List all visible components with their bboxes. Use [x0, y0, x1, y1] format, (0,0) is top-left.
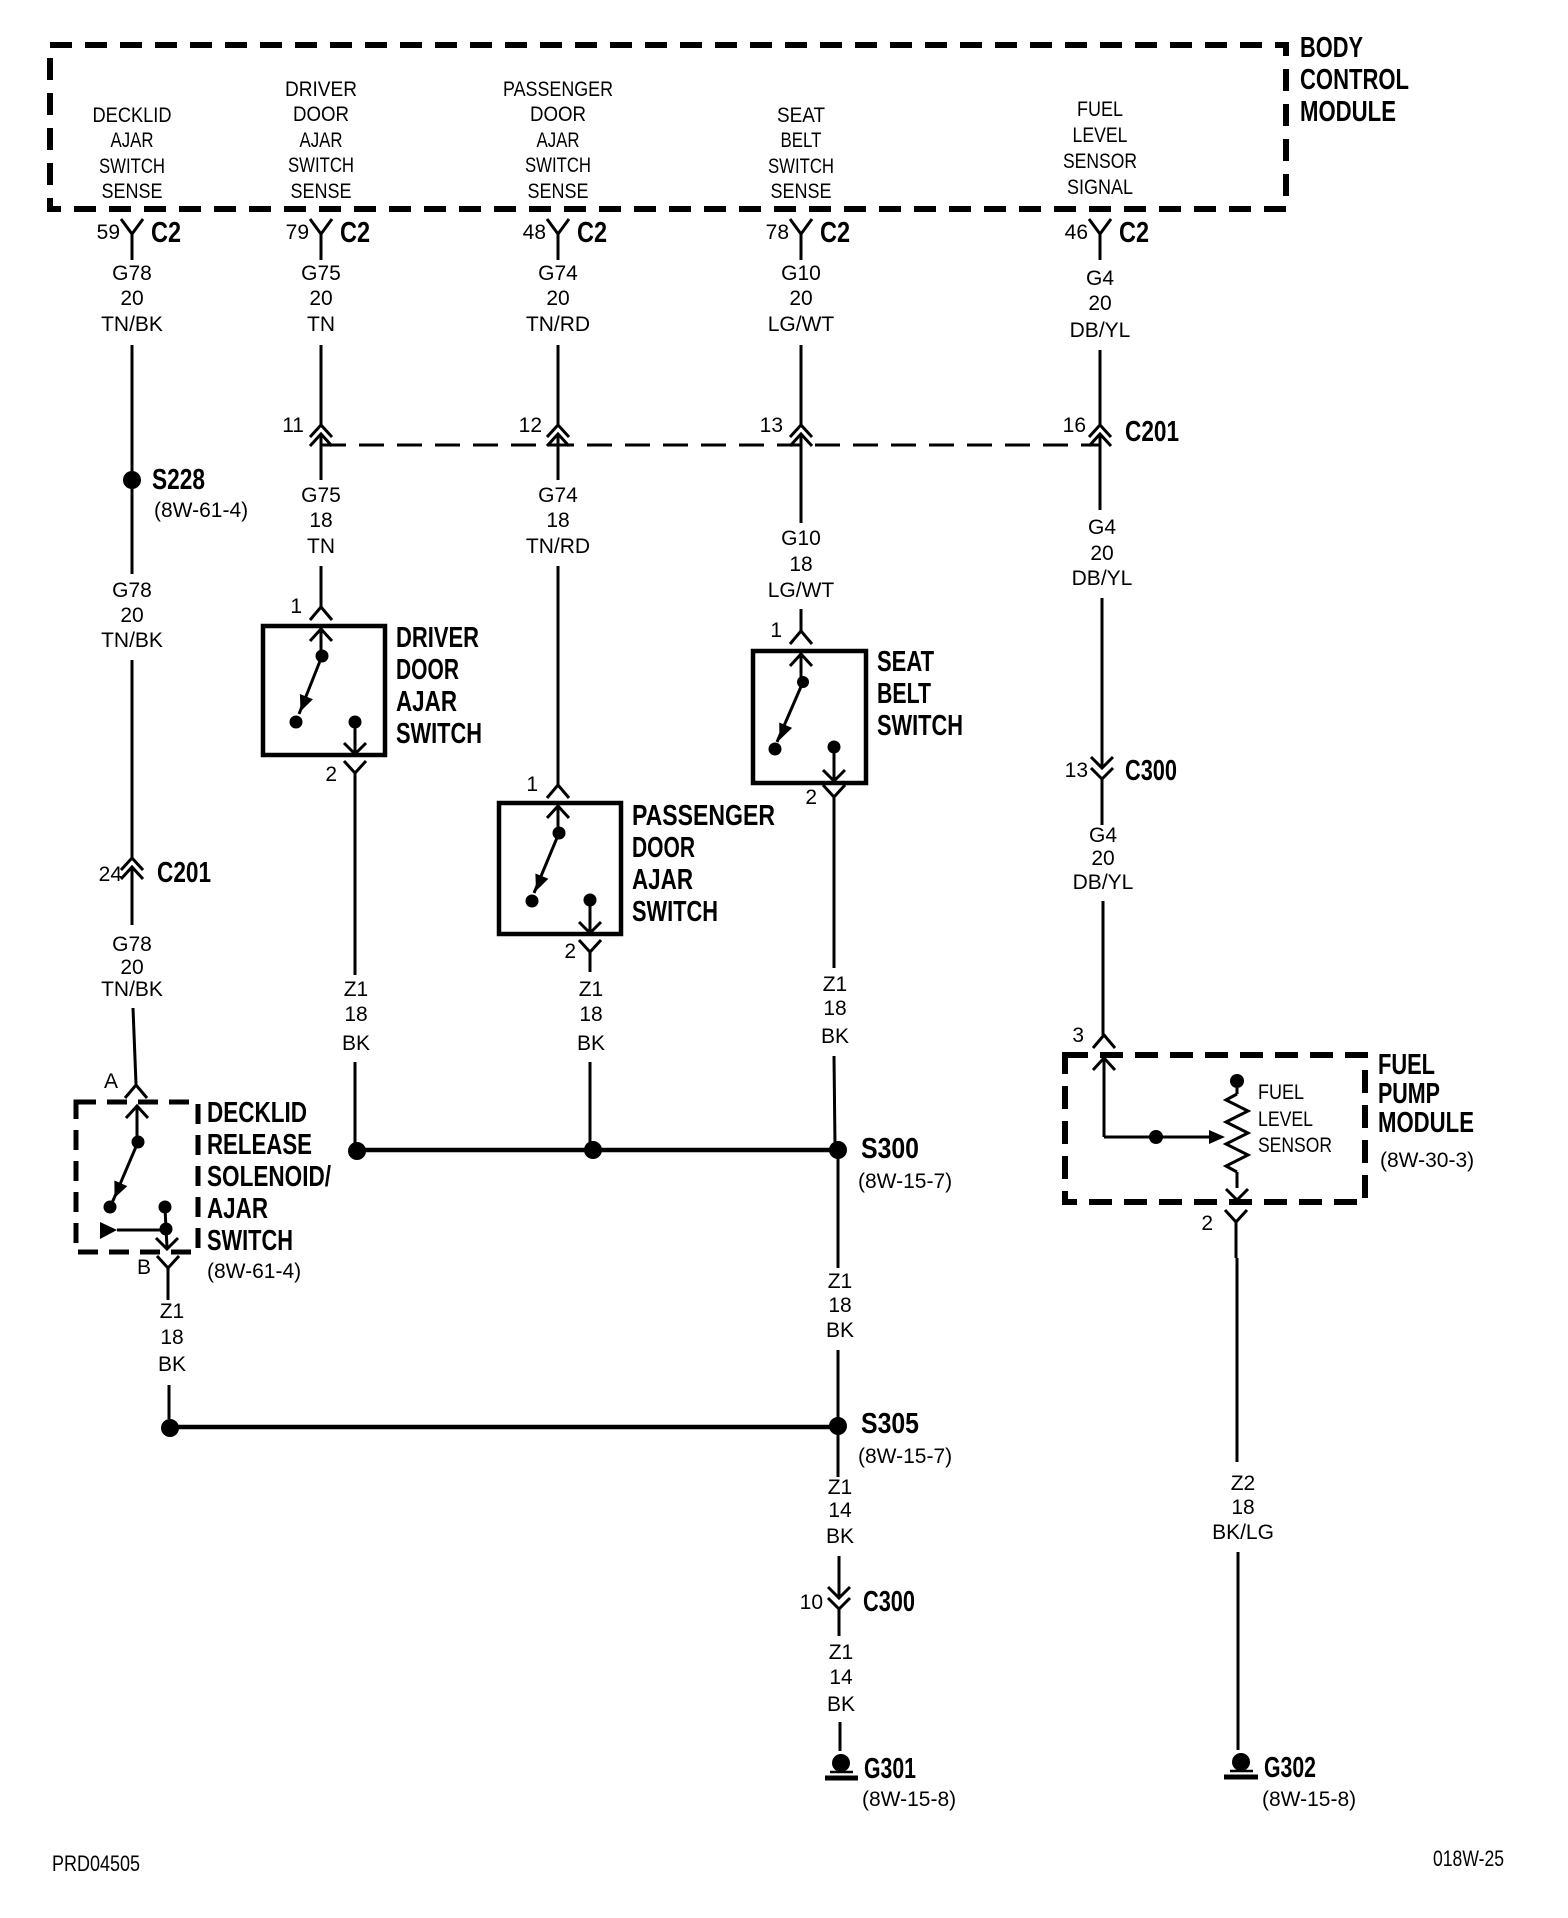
svg-text:78: 78 — [766, 221, 789, 244]
svg-text:(8W-15-8): (8W-15-8) — [1262, 1788, 1356, 1811]
svg-text:Z1: Z1 — [823, 973, 848, 996]
wire Z2 from fuel pump module pin 2 — [1236, 1258, 1239, 1462]
svg-text:Z1: Z1 — [160, 1300, 185, 1323]
pin 3 (fuel pump module) — [1072, 1024, 1115, 1048]
contact dot (lower, pin B side) — [160, 1223, 173, 1236]
svg-text:FUEL: FUEL — [1378, 1049, 1435, 1081]
solenoid plunger triangle (decklid release solenoid) — [100, 1222, 117, 1239]
wire Z1 to splice S300 — [354, 1062, 357, 1146]
svg-text:TN: TN — [307, 313, 335, 336]
svg-text:LEVEL: LEVEL — [1258, 1108, 1313, 1131]
connector C300 pin 10 (in-line) — [800, 1586, 915, 1636]
svg-text:18: 18 — [789, 553, 812, 576]
svg-text:BK: BK — [821, 1025, 849, 1048]
svg-text:B: B — [137, 1256, 151, 1279]
svg-text:BK/LG: BK/LG — [1212, 1521, 1274, 1544]
svg-text:SWITCH: SWITCH — [99, 155, 165, 178]
svg-text:TN/RD: TN/RD — [526, 313, 590, 336]
svg-text:DB/YL: DB/YL — [1073, 871, 1134, 894]
svg-text:G75: G75 — [301, 484, 341, 507]
wire Z1 to splice S300 (passenger) — [589, 1062, 592, 1146]
svg-text:(8W-61-4): (8W-61-4) — [154, 499, 248, 522]
svg-text:46: 46 — [1065, 221, 1088, 244]
wire label Z1 18 BK (below S300) — [826, 1270, 854, 1342]
switch output contact dot (passenger door ajar switch) — [584, 894, 597, 907]
svg-text:DOOR: DOOR — [632, 832, 695, 864]
junction dot (passenger wire at S300 bus) — [584, 1141, 602, 1159]
svg-text:1: 1 — [526, 773, 538, 796]
svg-text:A: A — [104, 1070, 118, 1093]
svg-text:AJAR: AJAR — [300, 129, 343, 152]
junction dot (driver wire at S300 bus) — [348, 1142, 366, 1160]
switch contact dot (lower-left, decklid switch) — [104, 1201, 117, 1214]
svg-text:Z1: Z1 — [579, 978, 604, 1001]
wire G74 from C2 pin 48 to C201 pin 12 — [557, 345, 560, 425]
switch fixed contact dot (driver door ajar switch) — [316, 650, 329, 663]
svg-text:C2: C2 — [820, 217, 850, 249]
switch input arrow (passenger door ajar switch) — [547, 806, 569, 832]
svg-text:AJAR: AJAR — [632, 864, 693, 896]
svg-text:LG/WT: LG/WT — [768, 313, 835, 336]
wire label Z1 18 BK (seat belt switch) — [821, 973, 849, 1048]
wire G78 from C2 pin 59 to S228 — [131, 345, 134, 471]
svg-text:C2: C2 — [340, 217, 370, 249]
svg-text:20: 20 — [1091, 847, 1114, 870]
switch output contact dot (driver door ajar switch) — [349, 716, 362, 729]
svg-text:LG/WT: LG/WT — [768, 579, 835, 602]
svg-text:12: 12 — [519, 414, 542, 437]
svg-text:2: 2 — [325, 763, 337, 786]
svg-text:DRIVER: DRIVER — [396, 622, 479, 654]
svg-text:LEVEL: LEVEL — [1073, 124, 1128, 147]
connector C300 pin 13 (in-line) — [1065, 755, 1177, 825]
svg-text:TN/BK: TN/BK — [101, 313, 163, 336]
wire label Z1 14 BK (below C300) — [827, 1641, 855, 1716]
svg-text:AJAR: AJAR — [207, 1193, 268, 1225]
wire G10 from C2 pin 78 to C201 pin 13 — [800, 345, 803, 425]
svg-text:G74: G74 — [538, 484, 578, 507]
svg-text:DECKLID: DECKLID — [93, 104, 172, 127]
junction dot on wiper feed (fuel level sensor) — [1149, 1130, 1163, 1144]
svg-text:BELT: BELT — [877, 678, 931, 710]
wire Z1 to splice S305 — [837, 1350, 840, 1418]
svg-text:(8W-15-7): (8W-15-7) — [858, 1170, 952, 1193]
wire: S300 splice bus — [357, 1148, 838, 1153]
wire label G78 20 TN/BK (circuit from BCM pin 59) — [101, 262, 163, 336]
contact stem (pin B side) — [165, 1207, 166, 1229]
svg-text:DRIVER: DRIVER — [285, 78, 357, 101]
wire label Z1 14 BK (below S305) — [826, 1476, 854, 1548]
svg-text:DOOR: DOOR — [293, 103, 349, 126]
switch contact dot lower-left (passenger door ajar switch) — [526, 895, 539, 908]
wire G78 below S228 — [131, 489, 134, 574]
switch output arrow to pin 2 (passenger door ajar switch) — [579, 900, 601, 933]
svg-text:BODY: BODY — [1300, 32, 1363, 64]
connector C201 pin 11 (in-line) — [282, 414, 332, 480]
wire Z1 below S305 — [837, 1435, 840, 1477]
svg-text:DOOR: DOOR — [530, 103, 586, 126]
switch fixed contact dot (top, decklid switch) — [132, 1136, 145, 1149]
svg-text:SEAT: SEAT — [777, 104, 825, 127]
svg-text:018W-25: 018W-25 — [1433, 1846, 1504, 1871]
connector C2 pin 78 (BCM) — [766, 217, 850, 260]
svg-text:G4: G4 — [1086, 267, 1114, 290]
svg-text:1: 1 — [290, 595, 302, 618]
wire label G4 20 DB/YL (below C201) — [1072, 516, 1133, 590]
label: FUEL PUMP MODULE — [1378, 1049, 1474, 1172]
wire label Z2 18 BK/LG — [1212, 1472, 1274, 1544]
svg-text:C201: C201 — [1125, 416, 1179, 448]
svg-text:AJAR: AJAR — [537, 129, 580, 152]
svg-text:DOOR: DOOR — [396, 654, 459, 686]
splice S228 — [123, 464, 248, 522]
wire G4 to connector C300 pin 13 — [1101, 598, 1104, 768]
pin 1 (seat belt switch) — [770, 619, 812, 644]
svg-text:G301: G301 — [864, 1753, 916, 1785]
wire G75 from C2 pin 79 to C201 pin 11 — [320, 345, 323, 425]
wire Z1 to connector C300 pin 10 — [838, 1556, 841, 1598]
switch contact dot lower-left (seat belt switch) — [769, 743, 782, 756]
svg-text:10: 10 — [800, 1591, 823, 1614]
svg-text:Z1: Z1 — [829, 1641, 854, 1664]
pin B (decklid release solenoid/ajar switch) — [137, 1256, 179, 1300]
svg-text:20: 20 — [120, 604, 143, 627]
svg-text:PASSENGER: PASSENGER — [503, 78, 613, 101]
svg-text:TN/BK: TN/BK — [101, 978, 163, 1001]
svg-text:G4: G4 — [1088, 516, 1116, 539]
svg-text:2: 2 — [564, 940, 576, 963]
svg-text:3: 3 — [1072, 1024, 1084, 1047]
svg-text:AJAR: AJAR — [396, 686, 457, 718]
pin A (decklid release solenoid/ajar switch) — [104, 1070, 147, 1098]
switch blade arm (passenger door ajar switch) — [534, 833, 559, 893]
svg-text:(8W-15-8): (8W-15-8) — [862, 1788, 956, 1811]
wire label G78 20 TN/BK (below S228) — [101, 579, 163, 652]
input arrow at pin 3 (fuel pump module) — [1093, 1058, 1115, 1137]
svg-text:2: 2 — [1201, 1212, 1213, 1235]
pin 1 (driver door ajar switch) — [290, 595, 332, 620]
connector C2 pin 48 (BCM) — [523, 217, 607, 260]
svg-text:SWITCH: SWITCH — [768, 155, 834, 178]
switch output arrow to pin B — [156, 1229, 178, 1249]
svg-text:MODULE: MODULE — [1378, 1107, 1474, 1139]
connector C2 pin 79 (BCM) — [286, 217, 370, 260]
svg-text:59: 59 — [97, 221, 120, 244]
svg-text:G302: G302 — [1264, 1752, 1316, 1784]
pin 2 (driver door ajar switch) — [325, 761, 366, 792]
svg-text:Z1: Z1 — [344, 978, 369, 1001]
svg-text:16: 16 — [1063, 414, 1086, 437]
svg-text:BK: BK — [342, 1032, 370, 1055]
svg-text:S300: S300 — [861, 1133, 919, 1165]
svg-text:79: 79 — [286, 221, 309, 244]
component box: SEAT BELT SWITCH — [753, 651, 866, 783]
wire label G75 18 TN (below C201) — [301, 484, 341, 558]
svg-text:SIGNAL: SIGNAL — [1067, 176, 1133, 199]
wire Z1 to splice S300 (seat belt) — [834, 1056, 835, 1146]
component box: FUEL PUMP MODULE (dashed) — [1065, 1055, 1365, 1202]
svg-text:(8W-30-3): (8W-30-3) — [1380, 1149, 1474, 1172]
svg-text:SENSE: SENSE — [771, 180, 832, 203]
svg-text:14: 14 — [829, 1666, 853, 1689]
svg-text:20: 20 — [1088, 292, 1111, 315]
svg-text:SENSOR: SENSOR — [1258, 1134, 1332, 1157]
svg-text:C2: C2 — [1119, 217, 1149, 249]
switch output contact dot (seat belt switch) — [828, 741, 841, 754]
label: DRIVER DOOR AJAR SWITCH SENSE (BCM pin function) — [285, 78, 357, 203]
wire label Z1 18 BK (driver door switch) — [342, 978, 370, 1055]
wire label G74 20 TN/RD (circuit from BCM pin 48) — [526, 262, 590, 336]
wire Z2 to ground G302 — [1237, 1552, 1240, 1750]
svg-text:20: 20 — [120, 287, 143, 310]
label: DRIVER DOOR AJAR SWITCH — [396, 622, 482, 750]
wire G74 to passenger door ajar switch pin 1 — [557, 566, 560, 785]
svg-text:S228: S228 — [152, 464, 205, 496]
wire Z1 from seat belt switch — [833, 817, 836, 968]
svg-text:SOLENOID/: SOLENOID/ — [207, 1161, 331, 1193]
svg-text:18: 18 — [1231, 1496, 1254, 1519]
svg-text:48: 48 — [523, 221, 546, 244]
svg-text:C300: C300 — [863, 1586, 915, 1618]
svg-text:TN/RD: TN/RD — [526, 535, 590, 558]
label: sheet number 018W-25 — [1433, 1846, 1504, 1871]
wire label G74 18 TN/RD (below C201) — [526, 484, 590, 558]
svg-text:PASSENGER: PASSENGER — [632, 800, 775, 832]
svg-text:RELEASE: RELEASE — [207, 1129, 312, 1161]
svg-text:SENSOR: SENSOR — [1063, 150, 1137, 173]
ground G301 — [825, 1753, 956, 1811]
svg-text:G10: G10 — [781, 527, 821, 550]
pin 2 (seat belt switch) — [805, 785, 845, 817]
svg-text:FUEL: FUEL — [1258, 1081, 1304, 1104]
svg-text:SENSE: SENSE — [528, 180, 589, 203]
resistor: FUEL LEVEL SENSOR (variable resistor) — [1226, 1074, 1248, 1200]
contact dot (upper, pin B side) — [159, 1201, 172, 1214]
label: FUEL LEVEL SENSOR — [1258, 1081, 1332, 1157]
switch output arrow to pin 2 (seat belt switch) — [823, 747, 845, 781]
label: SEAT BELT SWITCH SENSE (BCM pin function) — [768, 104, 834, 203]
pin 2 (fuel pump module) — [1201, 1210, 1247, 1258]
label: DECKLID AJAR SWITCH SENSE (BCM pin function) — [93, 104, 172, 203]
svg-text:FUEL: FUEL — [1077, 98, 1123, 121]
svg-text:G10: G10 — [781, 262, 821, 285]
svg-text:18: 18 — [160, 1326, 183, 1349]
svg-text:18: 18 — [828, 1294, 851, 1317]
wire: S305 splice bus — [170, 1425, 838, 1430]
svg-text:13: 13 — [760, 414, 783, 437]
switch blade arm (decklid ajar switch) — [112, 1142, 138, 1203]
svg-text:TN/BK: TN/BK — [101, 629, 163, 652]
wire label G75 20 TN (circuit from BCM pin 79) — [301, 262, 341, 336]
switch output arrow to pin 2 (driver door ajar switch) — [344, 722, 366, 754]
svg-text:S305: S305 — [861, 1408, 919, 1440]
wire Z1 from driver door switch — [354, 792, 357, 975]
wire G78 to decklid switch pin A — [133, 1008, 136, 1084]
svg-text:SWITCH: SWITCH — [632, 896, 718, 928]
svg-text:Z1: Z1 — [828, 1270, 853, 1293]
wire Z1 below S300 — [837, 1159, 840, 1268]
svg-text:G78: G78 — [112, 933, 152, 956]
svg-text:SWITCH: SWITCH — [288, 154, 354, 177]
svg-text:PRD04505: PRD04505 — [52, 1851, 140, 1876]
pin 1 (passenger door ajar switch) — [526, 773, 569, 798]
connector C201 pin 24 (in-line) — [99, 857, 211, 925]
svg-text:20: 20 — [789, 287, 812, 310]
svg-text:18: 18 — [344, 1003, 367, 1026]
module box: BODY CONTROL MODULE (dashed outline) — [50, 45, 1286, 209]
wire label G4 20 DB/YL (circuit from BCM pin 46) — [1070, 267, 1131, 342]
ground G302 — [1224, 1752, 1356, 1811]
svg-text:G78: G78 — [112, 579, 152, 602]
svg-text:G4: G4 — [1089, 824, 1117, 847]
wire label Z1 18 BK (passenger door switch) — [577, 978, 605, 1055]
svg-text:G78: G78 — [112, 262, 152, 285]
svg-text:2: 2 — [805, 786, 817, 809]
svg-text:BK: BK — [827, 1693, 855, 1716]
switch fixed contact dot (passenger door ajar switch) — [553, 827, 566, 840]
splice S300 — [829, 1133, 952, 1193]
switch input arrow (seat belt switch) — [790, 654, 812, 681]
junction dot (decklid wire at S305 bus) — [161, 1419, 179, 1437]
wire G78 to connector C201 pin 24 — [131, 660, 134, 858]
component box: PASSENGER DOOR AJAR SWITCH — [499, 803, 621, 934]
pin 2 (passenger door ajar switch) — [564, 940, 601, 972]
connector C201 pin 16 (in-line) — [1063, 414, 1179, 510]
wire G10 to seat belt switch pin 1 — [800, 609, 803, 631]
svg-text:SWITCH: SWITCH — [396, 718, 482, 750]
svg-text:BELT: BELT — [781, 129, 822, 152]
wire Z1 to ground G301 — [839, 1722, 842, 1751]
svg-text:18: 18 — [546, 509, 569, 532]
svg-text:SWITCH: SWITCH — [525, 154, 591, 177]
svg-text:14: 14 — [828, 1499, 852, 1522]
switch input arrow (driver door ajar switch) — [310, 629, 332, 655]
wire G4 from C2 pin 46 to C201 pin 16 — [1099, 350, 1102, 425]
svg-text:C201: C201 — [157, 857, 211, 889]
connector C201 pin 12 (in-line) — [519, 414, 569, 480]
label: BODY CONTROL MODULE — [1300, 32, 1409, 128]
svg-text:SWITCH: SWITCH — [207, 1225, 293, 1257]
svg-text:20: 20 — [546, 287, 569, 310]
svg-text:BK: BK — [826, 1525, 854, 1548]
component box: DECKLID RELEASE SOLENOID/AJAR SWITCH (dashed) — [76, 1102, 198, 1252]
wire label Z1 18 BK (decklid switch ground wire) — [158, 1300, 186, 1376]
wire label G10 18 LG/WT (below C201) — [768, 527, 835, 602]
svg-text:13: 13 — [1065, 759, 1088, 782]
svg-text:Z2: Z2 — [1231, 1472, 1256, 1495]
svg-text:BK: BK — [826, 1319, 854, 1342]
svg-text:CONTROL: CONTROL — [1300, 64, 1409, 96]
label: PASSENGER DOOR AJAR SWITCH SENSE (BCM pin function) — [503, 78, 613, 203]
svg-text:18: 18 — [309, 509, 332, 532]
svg-text:G75: G75 — [301, 262, 341, 285]
label: PASSENGER DOOR AJAR SWITCH — [632, 800, 775, 928]
switch blade arm (seat belt switch) — [777, 682, 803, 742]
wire: C201 dashed connector line — [321, 444, 1100, 447]
svg-text:SENSE: SENSE — [291, 180, 352, 203]
svg-text:BK: BK — [577, 1032, 605, 1055]
svg-text:C2: C2 — [151, 217, 181, 249]
svg-text:SWITCH: SWITCH — [877, 710, 963, 742]
connector C2 pin 46 (BCM) — [1065, 217, 1149, 260]
label: drawing number PRD04505 — [52, 1851, 140, 1876]
svg-text:1: 1 — [770, 619, 782, 642]
svg-text:DB/YL: DB/YL — [1072, 567, 1133, 590]
wire label G4 20 DB/YL (below C300) — [1073, 824, 1134, 894]
splice S305 — [829, 1408, 952, 1468]
svg-text:20: 20 — [309, 287, 332, 310]
wire G75 to driver door ajar switch pin 1 — [320, 566, 323, 607]
label: SEAT BELT SWITCH — [877, 646, 963, 742]
svg-text:18: 18 — [579, 1003, 602, 1026]
switch contact arrow (pin A side, decklid switch) — [126, 1106, 148, 1141]
svg-text:MODULE: MODULE — [1300, 96, 1396, 128]
svg-text:SENSE: SENSE — [102, 180, 163, 203]
svg-text:BK: BK — [158, 1353, 186, 1376]
label: DECKLID RELEASE SOLENOID/AJAR SWITCH — [207, 1097, 331, 1283]
connector C2 pin 59 (BCM) — [97, 217, 181, 260]
svg-text:C300: C300 — [1125, 755, 1177, 787]
wire label G78 20 TN/BK (below C201) — [101, 933, 163, 1001]
svg-text:DB/YL: DB/YL — [1070, 319, 1131, 342]
wire G4 to fuel pump module pin 3 — [1102, 901, 1105, 1035]
svg-text:(8W-61-4): (8W-61-4) — [207, 1260, 301, 1283]
svg-text:20: 20 — [1090, 542, 1113, 565]
solenoid link wire (decklid release solenoid) — [117, 1229, 166, 1232]
switch fixed contact dot (seat belt switch) — [797, 676, 809, 688]
wire label G10 20 LG/WT (circuit from BCM pin 78) — [768, 262, 835, 336]
wiper feed wire (fuel level sensor) — [1104, 1130, 1225, 1144]
switch blade arm (driver door ajar switch) — [299, 656, 322, 714]
wire Z1 from decklid switch to S305 — [168, 1385, 171, 1419]
svg-text:SEAT: SEAT — [877, 646, 934, 678]
svg-text:C2: C2 — [577, 217, 607, 249]
svg-text:(8W-15-7): (8W-15-7) — [858, 1445, 952, 1468]
connector C201 pin 13 (in-line) — [760, 414, 812, 523]
svg-text:Z1: Z1 — [828, 1476, 853, 1499]
svg-text:24: 24 — [99, 863, 123, 886]
svg-text:AJAR: AJAR — [111, 129, 154, 152]
svg-text:20: 20 — [120, 956, 143, 979]
svg-text:11: 11 — [282, 414, 304, 437]
label: FUEL LEVEL SENSOR SIGNAL (BCM pin function) — [1063, 98, 1137, 199]
svg-text:18: 18 — [823, 997, 846, 1020]
svg-text:G74: G74 — [538, 262, 578, 285]
svg-text:DECKLID: DECKLID — [207, 1097, 307, 1129]
switch contact dot lower-left (driver door ajar switch) — [290, 716, 303, 729]
component box: DRIVER DOOR AJAR SWITCH — [263, 626, 385, 755]
svg-text:PUMP: PUMP — [1378, 1078, 1440, 1110]
svg-text:TN: TN — [307, 535, 335, 558]
